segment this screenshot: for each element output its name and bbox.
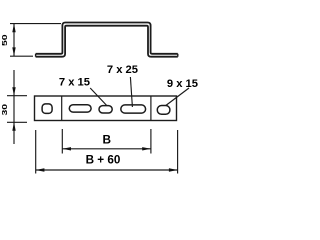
dim B+60 arrow left <box>36 168 45 171</box>
svg-text:50: 50 <box>0 34 8 46</box>
dim 30 dimension line <box>13 70 15 144</box>
hole small oval 7x15 <box>99 106 112 113</box>
rail body rectangle <box>35 96 177 121</box>
dim 50 arrow up <box>12 24 15 33</box>
svg-text:B + 60: B + 60 <box>86 153 121 166</box>
hat profile inner/bottom contour (flange bottom - left web right - plate bottom - right web left - right flange bottom) <box>36 26 178 57</box>
ext line below rail right divider (for B) <box>150 129 152 154</box>
dim B arrow right <box>142 147 151 150</box>
dim 50 extension line top <box>10 23 61 25</box>
hat profile outer/top contour (flange top - left web left - plate top - right web right - right flange top) <box>36 23 178 54</box>
hole slot2 7x25 <box>121 105 146 113</box>
svg-text:7 x 25: 7 x 25 <box>107 64 138 76</box>
dim 50 extension line bottom <box>10 55 33 57</box>
ext line below rail left (for B+60) <box>35 130 37 174</box>
leader 9x15 <box>166 88 189 106</box>
hole slot1 7x25 <box>69 105 91 112</box>
dim 30 arrow down (above top ext, pointing down) <box>12 87 15 95</box>
svg-text:9 x 15: 9 x 15 <box>167 78 198 90</box>
ext line below rail left divider (for B) <box>61 129 63 154</box>
hole left end 9x15 <box>42 104 52 114</box>
rail left divider <box>61 96 63 121</box>
dim B+60 arrow right <box>169 168 178 171</box>
leader 7x25 <box>130 77 132 107</box>
svg-text:B: B <box>103 133 112 147</box>
dim 50 dimension line <box>13 24 15 56</box>
svg-text:30: 30 <box>0 104 8 116</box>
rail right divider <box>150 96 152 121</box>
dim 50 arrow down <box>12 47 15 56</box>
dim 30 arrow up (below bottom ext, pointing up) <box>12 122 15 130</box>
dim 30 extension line bottom <box>7 121 27 123</box>
dim B arrow left <box>62 147 71 150</box>
dim B line <box>62 148 151 150</box>
left flange end cap <box>35 54 37 57</box>
leader 7x15 <box>90 88 106 105</box>
dim text 30 <box>0 104 8 116</box>
dim 30 extension line top <box>7 95 27 97</box>
ext line below rail right (for B+60) <box>177 130 179 174</box>
svg-text:7 x 15: 7 x 15 <box>59 76 90 88</box>
hole right end 9x15 <box>157 106 170 115</box>
right flange end cap <box>177 54 179 57</box>
dim B+60 line <box>36 169 178 171</box>
dim text 50 <box>0 34 8 46</box>
